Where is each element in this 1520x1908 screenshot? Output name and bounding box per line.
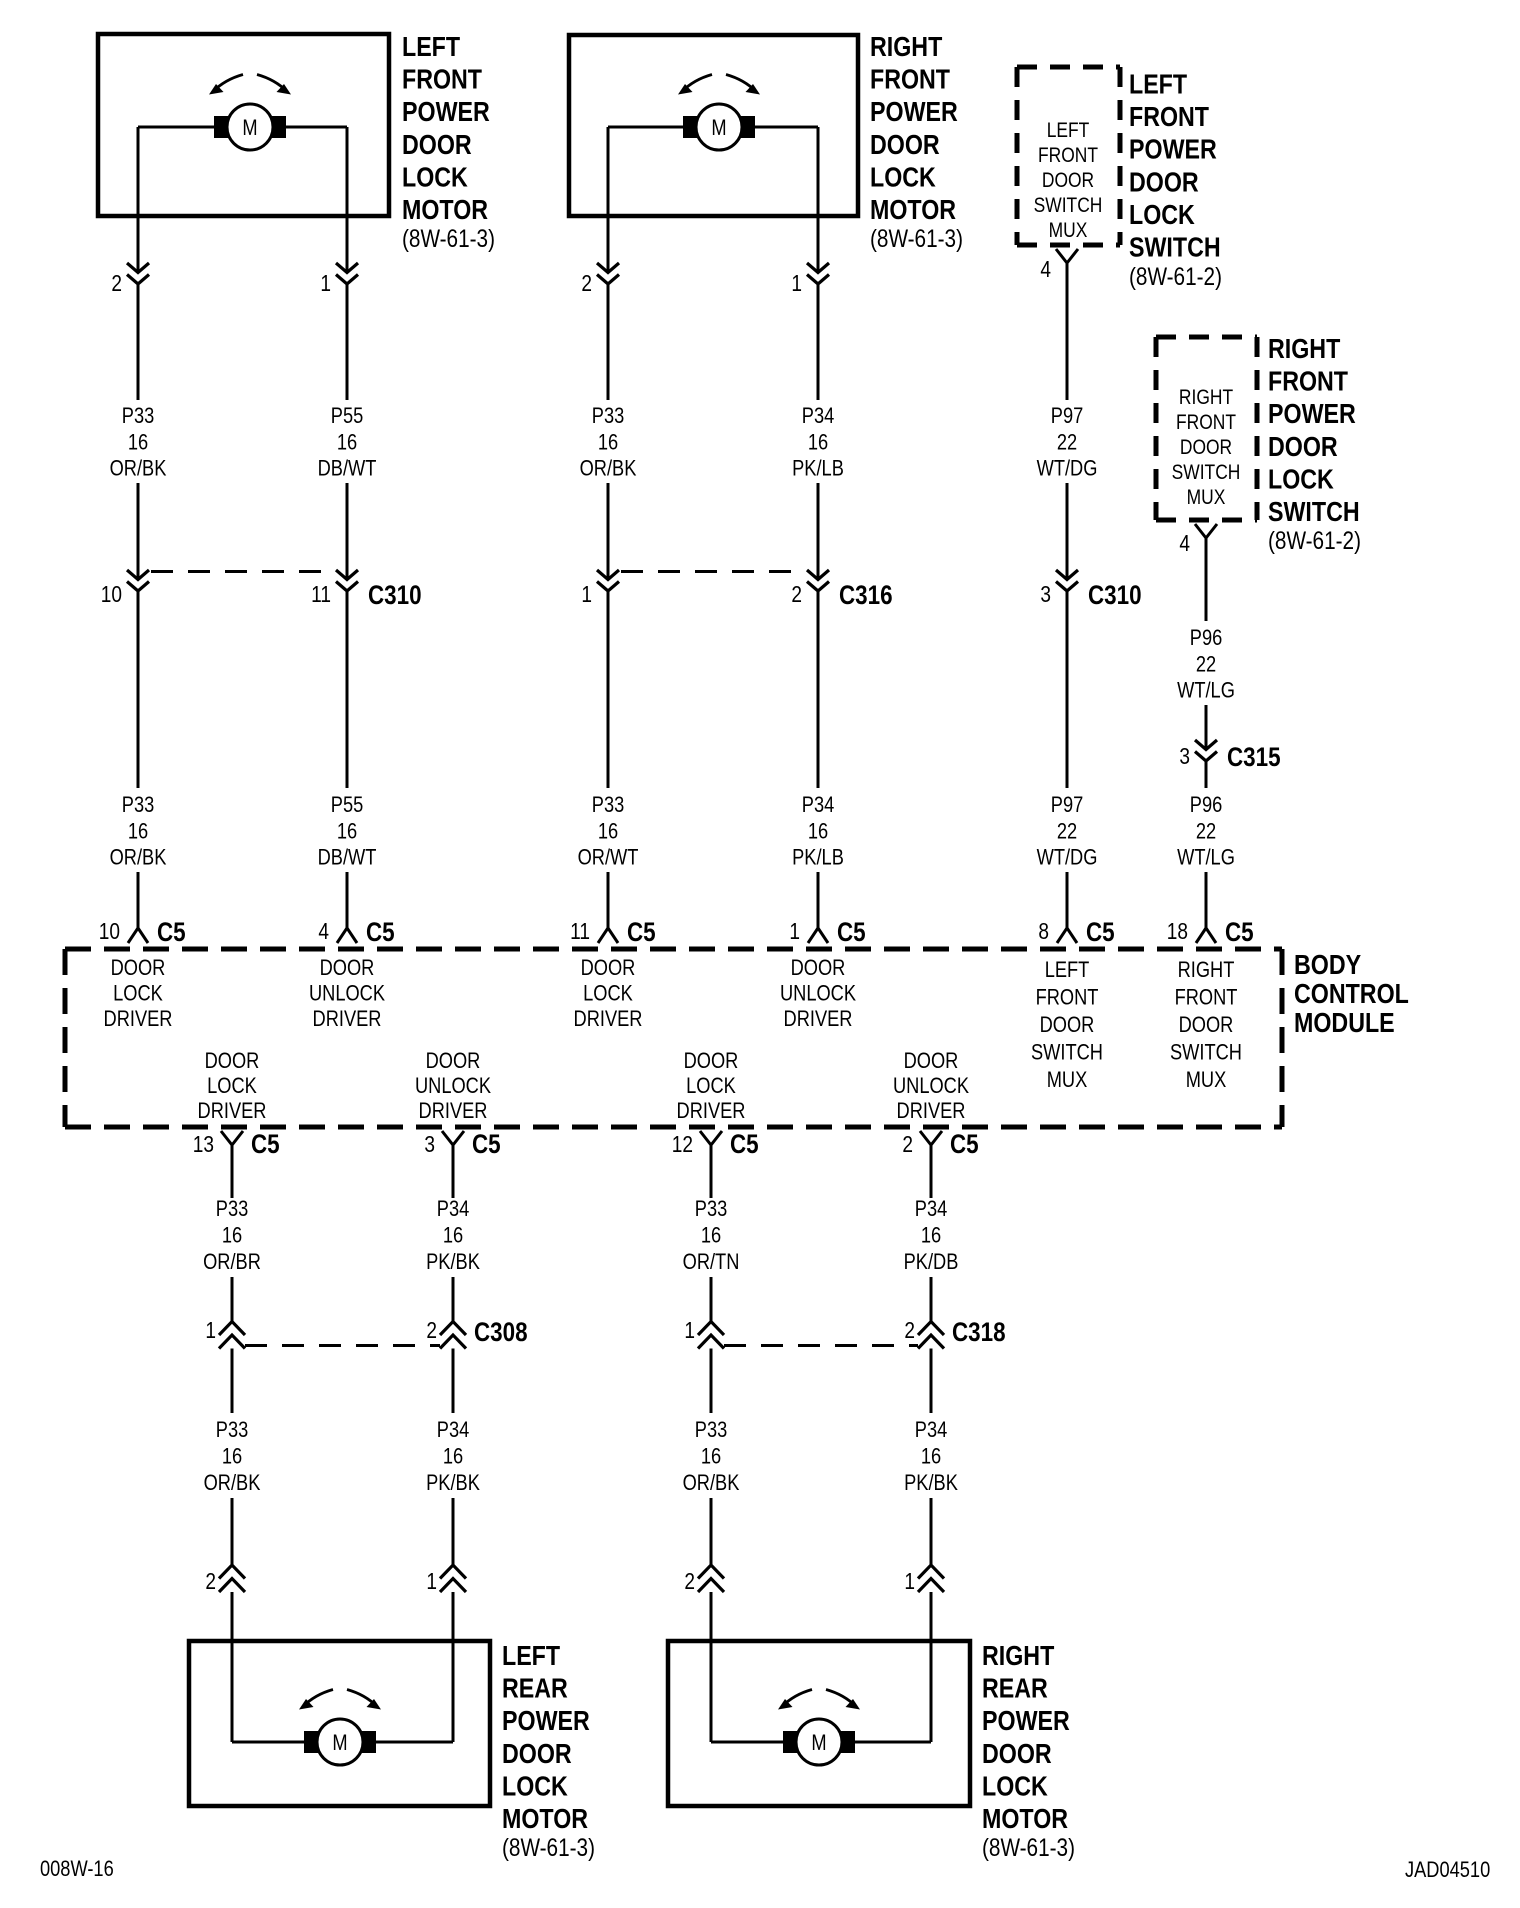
svg-text:1: 1	[791, 271, 802, 296]
wire	[607, 284, 610, 400]
svg-text:13: 13	[193, 1132, 214, 1157]
svg-text:P3316OR/WT: P3316OR/WT	[578, 794, 639, 871]
svg-text:2: 2	[791, 582, 802, 607]
svg-text:P3316OR/TN: P3316OR/TN	[683, 1198, 740, 1275]
svg-text:P3416PK/LB: P3416PK/LB	[792, 405, 844, 482]
svg-text:C5: C5	[157, 918, 186, 947]
wire	[710, 1145, 713, 1198]
wire - RF motor pin 1 down to connector	[817, 216, 820, 273]
wire - RR motor pin 2 lead vertical	[710, 1642, 713, 1742]
svg-text:1: 1	[789, 919, 800, 944]
label - right front door switch mux	[1172, 387, 1241, 510]
svg-text:2: 2	[426, 1318, 437, 1343]
svg-text:P3316OR/BK: P3316OR/BK	[110, 794, 167, 871]
pin number 10 - C5	[99, 919, 120, 944]
pin number 1 - C308	[205, 1318, 216, 1343]
wire label P33 16 OR/BK - to LR motor pin 2	[204, 1419, 261, 1496]
wire	[607, 483, 610, 580]
connector C310 pin 3 chevron	[1056, 570, 1078, 591]
svg-text:11: 11	[570, 919, 590, 944]
wire - RF motor right lead horizontal	[755, 126, 818, 129]
connector C5 pin 1 fork - door unlock driver	[808, 928, 828, 943]
svg-text:18: 18	[1167, 919, 1188, 944]
wire	[452, 1145, 455, 1198]
svg-text:M: M	[811, 1732, 826, 1756]
pin number 4 - RF switch mux	[1179, 531, 1190, 556]
wire	[346, 284, 349, 400]
svg-text:3: 3	[1179, 744, 1190, 769]
pin number 4 - LF switch mux	[1040, 257, 1051, 282]
svg-text:11: 11	[311, 582, 331, 607]
svg-text:C5: C5	[1225, 918, 1254, 947]
wire label P33 16 OR/BK - circuit to BCM pin 10	[110, 405, 167, 482]
connector label C5 (pin 2)	[950, 1130, 979, 1159]
wire - RR motor left lead horizontal	[711, 1741, 791, 1744]
svg-text:1: 1	[205, 1318, 216, 1343]
wire - RF motor pin 2 lead vertical	[607, 127, 610, 216]
svg-text:RIGHTREARPOWERDOORLOCKMOTOR: RIGHTREARPOWERDOORLOCKMOTOR	[982, 1641, 1070, 1834]
connector label C316	[839, 581, 893, 610]
wire label P33 16 OR/BK - to BCM pin 10	[110, 794, 167, 871]
svg-text:1: 1	[904, 1569, 915, 1594]
connector label C5 (pin 10)	[157, 918, 186, 947]
pin number 8 - C5	[1038, 919, 1049, 944]
wire	[137, 284, 140, 400]
wire label P34 16 PK/BK - to RR motor pin 1	[904, 1419, 958, 1496]
label - BCM right front door switch mux input	[1170, 959, 1242, 1093]
wire	[231, 1349, 234, 1414]
wire - RR motor right lead horizontal	[847, 1741, 931, 1744]
svg-text:P5516DB/WT: P5516DB/WT	[318, 794, 377, 871]
connector C5 pin 11 fork - door lock driver	[598, 928, 618, 943]
label - BCM door unlock driver (pin 4)	[309, 957, 386, 1032]
pin number 1 - C318	[684, 1318, 695, 1343]
connector label C315	[1227, 743, 1281, 772]
svg-text:DOORUNLOCKDRIVER: DOORUNLOCKDRIVER	[893, 1050, 970, 1124]
wire	[137, 591, 140, 788]
svg-text:M: M	[711, 117, 726, 141]
svg-text:RIGHTFRONTDOORSWITCHMUX: RIGHTFRONTDOORSWITCHMUX	[1170, 959, 1242, 1093]
wire	[346, 591, 349, 788]
svg-text:1: 1	[426, 1569, 437, 1594]
svg-text:4: 4	[318, 919, 329, 944]
svg-text:LEFTFRONTDOORSWITCHMUX: LEFTFRONTDOORSWITCHMUX	[1031, 959, 1103, 1093]
wire - LF motor pin 1 down to connector	[346, 216, 349, 273]
svg-text:RIGHTFRONTPOWERDOORLOCKMOTOR: RIGHTFRONTPOWERDOORLOCKMOTOR	[870, 32, 958, 225]
label - BCM door lock driver (pin 10)	[104, 957, 173, 1032]
connector C310 pin 11 chevron	[336, 570, 358, 591]
svg-text:12: 12	[672, 1132, 693, 1157]
wire	[607, 872, 610, 928]
left front power door lock motor box	[98, 34, 389, 216]
wire label P55 16 DB/WT - circuit to BCM pin 4	[318, 405, 377, 482]
pin number 1 - RF motor pin 1	[791, 271, 802, 296]
right front door switch mux box (right front power door lock switch)	[1156, 337, 1257, 520]
dashed connector link C318	[724, 1344, 918, 1347]
svg-text:DOORUNLOCKDRIVER: DOORUNLOCKDRIVER	[415, 1050, 492, 1124]
svg-text:P3416PK/DB: P3416PK/DB	[904, 1198, 959, 1275]
motor M - left rear power door lock motor	[299, 1690, 381, 1766]
reference 8W-61-3 for right rear motor	[982, 1833, 1075, 1861]
wire	[1066, 872, 1069, 928]
svg-text:(8W-61-3): (8W-61-3)	[870, 224, 963, 252]
svg-text:P3316OR/BK: P3316OR/BK	[683, 1419, 740, 1496]
connector chevron - LF motor pin 1	[336, 263, 358, 284]
svg-text:P9722WT/DG: P9722WT/DG	[1037, 405, 1098, 482]
connector chevron - LR motor pin 2	[219, 1565, 245, 1592]
wire - LR motor pin 1 lead vertical	[452, 1642, 455, 1742]
pin number 11 - C310	[311, 582, 331, 607]
pin number 2 - RR motor pin 2	[684, 1569, 695, 1594]
pin number 2 - LR motor pin 2	[205, 1569, 216, 1594]
svg-text:2: 2	[205, 1569, 216, 1594]
pin number 1 - LF motor pin 1	[320, 271, 331, 296]
label - BCM door lock driver (pin 13)	[198, 1050, 267, 1124]
connector C315 pin 3 chevron	[1195, 740, 1217, 761]
drawing number JAD04510	[1405, 1859, 1490, 1883]
right rear power door lock motor box	[668, 1641, 970, 1806]
connector C316 pin 2 chevron	[807, 570, 829, 591]
svg-text:LEFTFRONTPOWERDOORLOCKSWITCH: LEFTFRONTPOWERDOORLOCKSWITCH	[1129, 70, 1221, 263]
wire - RR motor pin 1 lead vertical	[930, 1642, 933, 1742]
wire label P33 16 OR/WT - to BCM pin 11	[578, 794, 639, 871]
svg-text:C315: C315	[1227, 743, 1281, 772]
connector C318 pin 1 chevron	[698, 1322, 724, 1349]
svg-text:M: M	[242, 117, 257, 141]
wire label P97 22 WT/DG - to BCM pin 8	[1037, 794, 1098, 871]
svg-text:DOORLOCKDRIVER: DOORLOCKDRIVER	[574, 957, 643, 1032]
wire - LR motor pin 2 lead vertical	[231, 1642, 234, 1742]
connector label C5 (pin 13)	[251, 1130, 280, 1159]
wire	[346, 872, 349, 928]
wire	[452, 1349, 455, 1414]
reference 8W-61-3 for left rear motor	[502, 1833, 595, 1861]
svg-text:2: 2	[684, 1569, 695, 1594]
connector label C5 (pin 1)	[837, 918, 866, 947]
pin number 3 - C315	[1179, 744, 1190, 769]
wire	[930, 1349, 933, 1414]
svg-text:C310: C310	[1088, 581, 1142, 610]
connector chevron - LR motor pin 1	[440, 1565, 466, 1592]
connector pin 4 fork - left front door switch mux output	[1056, 249, 1078, 263]
svg-text:(8W-61-3): (8W-61-3)	[982, 1833, 1075, 1861]
wire	[817, 872, 820, 928]
svg-text:10: 10	[99, 919, 120, 944]
motor M - right front power door lock motor	[678, 75, 760, 151]
reference 8W-61-3 for left front motor	[402, 224, 495, 252]
pin number 3 - C5	[424, 1132, 435, 1157]
svg-text:1: 1	[684, 1318, 695, 1343]
connector C318 pin 2 chevron	[918, 1322, 944, 1349]
pin number 2 - C308	[426, 1318, 437, 1343]
svg-text:2: 2	[904, 1318, 915, 1343]
wire	[346, 483, 349, 580]
wire - LF motor pin 1 lead vertical	[346, 127, 349, 216]
wire label P33 16 OR/BK - circuit to BCM pin 11	[580, 405, 637, 482]
wire	[710, 1349, 713, 1414]
wire - RF switch mux down from fork	[1205, 538, 1208, 621]
connector label C310	[368, 581, 422, 610]
svg-text:C5: C5	[366, 918, 395, 947]
svg-text:C5: C5	[1086, 918, 1115, 947]
reference 8W-61-3 for right front motor	[870, 224, 963, 252]
pin number 2 - RF motor pin 2	[581, 271, 592, 296]
svg-text:(8W-61-3): (8W-61-3)	[502, 1833, 595, 1861]
dashed connector link C316	[621, 570, 805, 573]
wire label P97 22 WT/DG - LF switch mux circuit	[1037, 405, 1098, 482]
connector C308 pin 1 chevron	[219, 1322, 245, 1349]
connector C5 pin 18 fork - right front door switch mux	[1196, 928, 1216, 943]
pin number 3 - C310	[1040, 582, 1051, 607]
connector C5 pin 10 fork - door lock driver	[128, 928, 148, 943]
svg-text:C310: C310	[368, 581, 422, 610]
connector label C5 (pin 3)	[472, 1130, 501, 1159]
reference 8W-61-2 for left front switch	[1129, 262, 1222, 290]
svg-text:LEFTFRONTDOORSWITCHMUX: LEFTFRONTDOORSWITCHMUX	[1034, 120, 1103, 243]
wire	[137, 483, 140, 580]
connector C308 pin 2 chevron	[440, 1322, 466, 1349]
wire - RF motor pin 2 down to connector	[607, 216, 610, 273]
pin number 12 - C5	[672, 1132, 693, 1157]
wire - LF motor right lead horizontal	[286, 126, 347, 129]
pin number 2 - LF motor pin 2	[111, 271, 122, 296]
wire - LF switch mux down from fork	[1066, 263, 1069, 400]
wire	[452, 1498, 455, 1565]
svg-text:008W-16: 008W-16	[40, 1858, 114, 1882]
motor M - left front power door lock motor	[209, 75, 291, 151]
label - body control module title	[1294, 950, 1409, 1038]
wire	[137, 872, 140, 928]
wire	[1205, 705, 1208, 750]
wire label P34 16 PK/LB - to BCM pin 1	[792, 794, 844, 871]
wire label P96 22 WT/LG - to BCM pin 18	[1177, 794, 1235, 871]
svg-text:P3416PK/BK: P3416PK/BK	[426, 1198, 480, 1275]
svg-text:P3416PK/BK: P3416PK/BK	[426, 1419, 480, 1496]
svg-text:C318: C318	[952, 1318, 1006, 1347]
svg-text:1: 1	[320, 271, 331, 296]
svg-text:BODYCONTROLMODULE: BODYCONTROLMODULE	[1294, 950, 1409, 1038]
pin number 1 - C5	[789, 919, 800, 944]
connector C5 pin 2 fork - door unlock driver output	[920, 1131, 942, 1145]
wire	[930, 1277, 933, 1322]
wire - LR motor pin 2 into motor box	[231, 1592, 234, 1642]
svg-text:JAD04510: JAD04510	[1405, 1859, 1490, 1883]
wire label P34 16 PK/LB - circuit to BCM pin 1	[792, 405, 844, 482]
svg-text:1: 1	[581, 582, 592, 607]
connector label C5 (pin 11)	[627, 918, 656, 947]
wire	[607, 591, 610, 788]
pin number 10 - C310	[101, 582, 122, 607]
svg-text:C5: C5	[950, 1130, 979, 1159]
motor M - right rear power door lock motor	[778, 1690, 860, 1766]
svg-text:P9622WT/LG: P9622WT/LG	[1177, 794, 1235, 871]
connector label C318	[952, 1318, 1006, 1347]
connector pin 4 fork - right front door switch mux output	[1195, 524, 1217, 538]
svg-text:P9722WT/DG: P9722WT/DG	[1037, 794, 1098, 871]
svg-text:DOORLOCKDRIVER: DOORLOCKDRIVER	[104, 957, 173, 1032]
connector label C5 (pin 18)	[1225, 918, 1254, 947]
body control module box	[65, 949, 1282, 1127]
label - left rear power door lock motor title	[502, 1641, 590, 1834]
svg-text:P3316OR/BK: P3316OR/BK	[580, 405, 637, 482]
svg-text:8: 8	[1038, 919, 1049, 944]
connector C5 pin 4 fork - door unlock driver	[337, 928, 357, 943]
pin number 1 - C316	[581, 582, 592, 607]
wire	[817, 284, 820, 400]
wire	[1066, 483, 1069, 580]
dashed connector link C310	[151, 570, 334, 573]
connector C5 pin 3 fork - door unlock driver output	[442, 1131, 464, 1145]
wire label P33 16 OR/BK - to RR motor pin 2	[683, 1419, 740, 1496]
label - BCM door lock driver (pin 12)	[677, 1050, 746, 1124]
wire - LF motor pin 2 down to connector	[137, 216, 140, 273]
svg-text:(8W-61-2): (8W-61-2)	[1129, 262, 1222, 290]
wire - RF motor left lead horizontal	[608, 126, 691, 129]
wire - LR motor pin 1 into motor box	[452, 1592, 455, 1642]
svg-text:P3316OR/BR: P3316OR/BR	[203, 1198, 261, 1275]
svg-text:P3416PK/BK: P3416PK/BK	[904, 1419, 958, 1496]
left rear power door lock motor box	[189, 1641, 490, 1806]
connector C316 pin 1 chevron	[597, 570, 619, 591]
wire - RR motor pin 2 into motor box	[710, 1592, 713, 1642]
connector label C5 (pin 4)	[366, 918, 395, 947]
svg-text:DOORUNLOCKDRIVER: DOORUNLOCKDRIVER	[780, 957, 857, 1032]
svg-text:2: 2	[902, 1132, 913, 1157]
svg-text:M: M	[332, 1732, 347, 1756]
label - BCM door lock driver (pin 11)	[574, 957, 643, 1032]
wire	[930, 1498, 933, 1565]
label - left front power door lock motor title	[402, 32, 490, 225]
pin number 1 - RR motor pin 1	[904, 1569, 915, 1594]
wire	[452, 1277, 455, 1322]
svg-text:DOORLOCKDRIVER: DOORLOCKDRIVER	[198, 1050, 267, 1124]
right front power door lock motor box	[569, 35, 858, 216]
wire	[817, 591, 820, 788]
connector chevron - RF motor pin 1	[807, 263, 829, 284]
svg-text:C5: C5	[472, 1130, 501, 1159]
label - right front power door lock switch title	[1268, 334, 1360, 527]
wire - LR motor left lead horizontal	[232, 1741, 312, 1744]
connector C5 pin 12 fork - door lock driver output	[700, 1131, 722, 1145]
connector C5 pin 8 fork - left front door switch mux	[1057, 928, 1077, 943]
svg-text:(8W-61-2): (8W-61-2)	[1268, 526, 1361, 554]
label - BCM door unlock driver (pin 3)	[415, 1050, 492, 1124]
wire	[231, 1145, 234, 1198]
svg-text:C5: C5	[730, 1130, 759, 1159]
wire - LR motor right lead horizontal	[368, 1741, 453, 1744]
wire	[1205, 761, 1208, 788]
pin number 4 - C5	[318, 919, 329, 944]
wire - LF motor pin 2 lead vertical	[137, 127, 140, 216]
svg-text:10: 10	[101, 582, 122, 607]
wire label P55 16 DB/WT - to BCM pin 4	[318, 794, 377, 871]
connector C310 pin 10 chevron	[127, 570, 149, 591]
connector label C308	[474, 1318, 528, 1347]
svg-text:3: 3	[1040, 582, 1051, 607]
label - left front door switch mux	[1034, 120, 1103, 243]
wire label P34 16 PK/BK - to LR motor pin 1	[426, 1419, 480, 1496]
wire - LF motor left lead horizontal	[138, 126, 222, 129]
reference 8W-61-2 for right front switch	[1268, 526, 1361, 554]
label - BCM door unlock driver (pin 1)	[780, 957, 857, 1032]
pin number 1 - LR motor pin 1	[426, 1569, 437, 1594]
svg-text:P9622WT/LG: P9622WT/LG	[1177, 627, 1235, 704]
wire	[710, 1277, 713, 1322]
label - right rear power door lock motor title	[982, 1641, 1070, 1834]
wire label P33 16 OR/BR - BCM pin 13 circuit	[203, 1198, 261, 1275]
wire	[817, 483, 820, 580]
svg-text:DOORUNLOCKDRIVER: DOORUNLOCKDRIVER	[309, 957, 386, 1032]
svg-text:2: 2	[581, 271, 592, 296]
svg-text:C5: C5	[837, 918, 866, 947]
svg-text:(8W-61-3): (8W-61-3)	[402, 224, 495, 252]
label - BCM door unlock driver (pin 2)	[893, 1050, 970, 1124]
wire	[231, 1498, 234, 1565]
dashed connector link C308	[245, 1344, 440, 1347]
wire	[1066, 591, 1069, 788]
wire - RF motor pin 1 lead vertical	[817, 127, 820, 216]
svg-text:RIGHTFRONTPOWERDOORLOCKSWITCH: RIGHTFRONTPOWERDOORLOCKSWITCH	[1268, 334, 1360, 527]
svg-text:P5516DB/WT: P5516DB/WT	[318, 405, 377, 482]
svg-text:DOORLOCKDRIVER: DOORLOCKDRIVER	[677, 1050, 746, 1124]
label - BCM left front door switch mux input	[1031, 959, 1103, 1093]
connector chevron - RR motor pin 2	[698, 1565, 724, 1592]
wire	[710, 1498, 713, 1565]
svg-text:4: 4	[1179, 531, 1190, 556]
pin number 2 - C318	[904, 1318, 915, 1343]
pin number 18 - C5	[1167, 919, 1188, 944]
wire - RR motor pin 1 into motor box	[930, 1592, 933, 1642]
left front door switch mux box (left front power door lock switch)	[1017, 67, 1120, 245]
wire label P34 16 PK/BK - BCM pin 3 circuit	[426, 1198, 480, 1275]
label - left front power door lock switch title	[1129, 70, 1221, 263]
wire	[231, 1277, 234, 1322]
svg-text:C5: C5	[251, 1130, 280, 1159]
connector C5 pin 13 fork - door lock driver output	[221, 1131, 243, 1145]
pin number 13 - C5	[193, 1132, 214, 1157]
connector chevron - RR motor pin 1	[918, 1565, 944, 1592]
connector label C5 (pin 8)	[1086, 918, 1115, 947]
wire	[930, 1145, 933, 1198]
wire label P33 16 OR/TN - BCM pin 12 circuit	[683, 1198, 740, 1275]
connector label C5 (pin 12)	[730, 1130, 759, 1159]
svg-text:2: 2	[111, 271, 122, 296]
svg-text:RIGHTFRONTDOORSWITCHMUX: RIGHTFRONTDOORSWITCHMUX	[1172, 387, 1241, 510]
svg-text:P3416PK/LB: P3416PK/LB	[792, 794, 844, 871]
connector chevron - RF motor pin 2	[597, 263, 619, 284]
connector chevron - LF motor pin 2	[127, 263, 149, 284]
connector label C310 (switch mux)	[1088, 581, 1142, 610]
wire label P34 16 PK/DB - BCM pin 2 circuit	[904, 1198, 959, 1275]
pin number 2 - C316	[791, 582, 802, 607]
pin number 11 - C5	[570, 919, 590, 944]
svg-text:3: 3	[424, 1132, 435, 1157]
wire label P96 22 WT/LG - RF switch mux circuit	[1177, 627, 1235, 704]
svg-text:LEFTREARPOWERDOORLOCKMOTOR: LEFTREARPOWERDOORLOCKMOTOR	[502, 1641, 590, 1834]
wire	[1205, 872, 1208, 928]
label - right front power door lock motor title	[870, 32, 958, 225]
svg-text:C316: C316	[839, 581, 893, 610]
svg-text:LEFTFRONTPOWERDOORLOCKMOTOR: LEFTFRONTPOWERDOORLOCKMOTOR	[402, 32, 490, 225]
svg-text:C5: C5	[627, 918, 656, 947]
page code 008W-16	[40, 1858, 114, 1882]
svg-text:4: 4	[1040, 257, 1051, 282]
svg-text:P3316OR/BK: P3316OR/BK	[110, 405, 167, 482]
pin number 2 - C5	[902, 1132, 913, 1157]
svg-text:P3316OR/BK: P3316OR/BK	[204, 1419, 261, 1496]
svg-text:C308: C308	[474, 1318, 528, 1347]
